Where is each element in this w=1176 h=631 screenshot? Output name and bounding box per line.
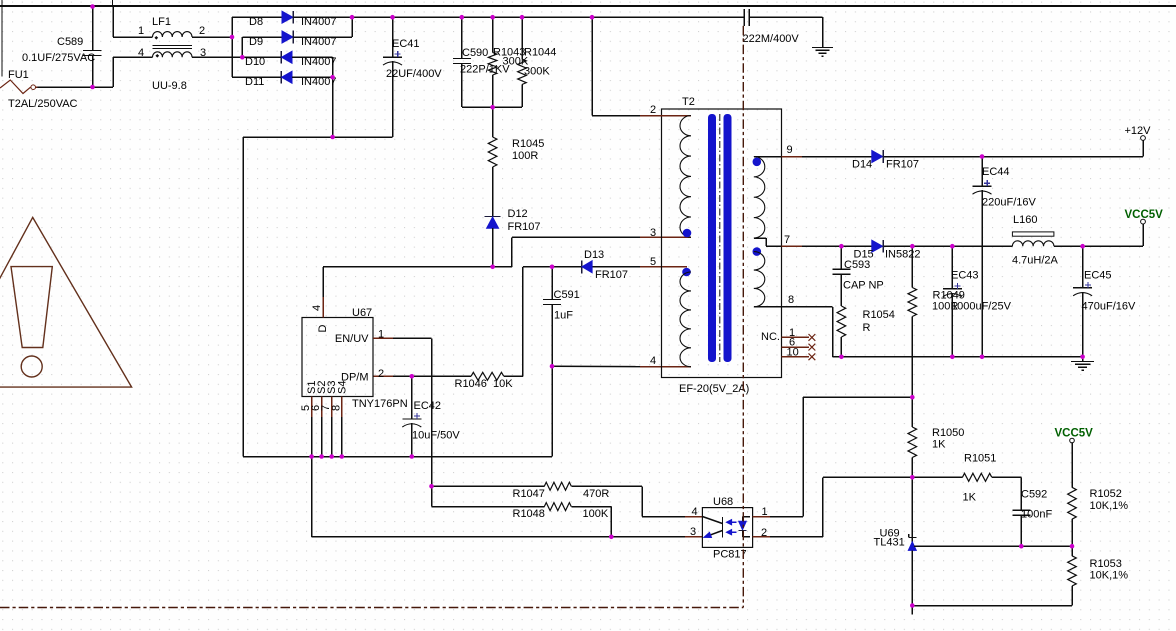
svg-text:C592: C592	[1021, 489, 1047, 501]
svg-text:5: 5	[650, 256, 656, 268]
svg-text:EC44: EC44	[982, 166, 1010, 178]
svg-text:10uF/50V: 10uF/50V	[412, 430, 460, 442]
svg-text:EC43: EC43	[951, 270, 979, 282]
svg-text:3: 3	[200, 47, 206, 59]
svg-text:EC42: EC42	[414, 400, 442, 412]
svg-text:FU1: FU1	[8, 69, 29, 81]
svg-text:1uF: 1uF	[554, 310, 573, 322]
svg-text:C589: C589	[57, 36, 83, 48]
svg-text:D14: D14	[852, 159, 872, 171]
svg-text:R1052: R1052	[1090, 488, 1122, 500]
svg-text:CAP NP: CAP NP	[843, 280, 884, 292]
svg-text:+12V: +12V	[1125, 125, 1152, 137]
svg-text:2: 2	[761, 527, 767, 539]
svg-text:D: D	[317, 325, 329, 333]
svg-text:470uF/16V: 470uF/16V	[1082, 301, 1136, 313]
svg-text:2: 2	[650, 104, 656, 116]
svg-text:C593: C593	[844, 259, 870, 271]
svg-text:FR107: FR107	[595, 269, 628, 281]
svg-text:1000uF/25V: 1000uF/25V	[951, 301, 1012, 313]
svg-text:IN5822: IN5822	[885, 249, 920, 261]
svg-text:T2AL/250VAC: T2AL/250VAC	[8, 98, 78, 110]
svg-text:R1050: R1050	[932, 427, 964, 439]
svg-text:D8: D8	[249, 16, 263, 28]
svg-text:D12: D12	[508, 208, 528, 220]
svg-text:8: 8	[330, 405, 342, 411]
svg-text:R1048: R1048	[513, 508, 545, 520]
svg-text:TL431: TL431	[874, 537, 905, 549]
svg-text:9: 9	[787, 144, 793, 156]
svg-text:4.7uH/2A: 4.7uH/2A	[1012, 255, 1059, 267]
svg-text:2: 2	[199, 25, 205, 37]
svg-text:4: 4	[138, 47, 144, 59]
svg-text:VCC5V: VCC5V	[1125, 209, 1164, 221]
svg-text:1: 1	[138, 25, 144, 37]
svg-text:U68: U68	[713, 496, 733, 508]
svg-text:TNY176PN: TNY176PN	[352, 398, 408, 410]
svg-text:IN4007: IN4007	[301, 36, 336, 48]
svg-text:4: 4	[692, 506, 698, 518]
svg-text:IN4007: IN4007	[301, 16, 336, 28]
svg-text:S4: S4	[336, 381, 348, 394]
svg-text:VCC5V: VCC5V	[1055, 428, 1094, 440]
svg-text:R1054: R1054	[863, 309, 895, 321]
svg-text:EC41: EC41	[392, 38, 420, 50]
svg-text:R1044: R1044	[524, 47, 556, 59]
svg-text:R1051: R1051	[964, 453, 996, 465]
svg-text:300K: 300K	[524, 66, 550, 78]
svg-text:IN4007: IN4007	[301, 56, 336, 68]
svg-text:D13: D13	[584, 249, 604, 261]
svg-text:EF-20(5V_2A): EF-20(5V_2A)	[679, 383, 749, 395]
svg-text:3: 3	[650, 227, 656, 239]
svg-text:R1047: R1047	[513, 488, 545, 500]
svg-text:R1053: R1053	[1090, 558, 1122, 570]
svg-text:EC45: EC45	[1084, 270, 1112, 282]
svg-text:100R: 100R	[512, 150, 538, 162]
svg-text:0.1UF/275VAC: 0.1UF/275VAC	[22, 52, 95, 64]
svg-text:L160: L160	[1013, 214, 1037, 226]
svg-text:PC817: PC817	[713, 549, 747, 561]
svg-text:D11: D11	[245, 76, 264, 88]
svg-text:1K: 1K	[932, 439, 946, 451]
svg-text:R: R	[863, 322, 871, 334]
svg-text:3: 3	[690, 526, 696, 538]
svg-text:1: 1	[762, 506, 768, 518]
svg-text:NC.: NC.	[761, 331, 780, 343]
svg-text:100K: 100K	[583, 508, 609, 520]
svg-text:LF1: LF1	[152, 16, 171, 28]
svg-text:T2: T2	[682, 96, 695, 108]
svg-text:7: 7	[784, 234, 790, 246]
svg-text:R1046: R1046	[455, 378, 487, 390]
svg-text:2: 2	[378, 368, 384, 380]
svg-text:UU-9.8: UU-9.8	[152, 80, 187, 92]
svg-text:FR107: FR107	[886, 159, 919, 171]
svg-text:8: 8	[788, 294, 794, 306]
svg-text:10: 10	[787, 347, 799, 359]
svg-text:4: 4	[311, 305, 323, 311]
svg-text:4: 4	[650, 355, 656, 367]
svg-text:D10: D10	[245, 56, 265, 68]
svg-text:10K,1%: 10K,1%	[1090, 570, 1129, 582]
svg-text:100nF: 100nF	[1021, 509, 1052, 521]
svg-text:22UF/400V: 22UF/400V	[386, 68, 442, 80]
svg-text:10K,1%: 10K,1%	[1090, 500, 1129, 512]
svg-text:220uF/16V: 220uF/16V	[982, 197, 1036, 209]
svg-text:222M/400V: 222M/400V	[743, 33, 800, 45]
svg-text:10K: 10K	[493, 378, 513, 390]
svg-text:FR107: FR107	[508, 221, 541, 233]
svg-text:U67: U67	[352, 307, 372, 319]
svg-text:EN/UV: EN/UV	[335, 333, 369, 345]
svg-text:470R: 470R	[583, 488, 609, 500]
svg-text:D9: D9	[249, 36, 263, 48]
svg-text:C590: C590	[462, 47, 488, 59]
svg-text:R1045: R1045	[512, 138, 544, 150]
svg-text:C591: C591	[554, 289, 580, 301]
svg-text:1K: 1K	[963, 492, 977, 504]
